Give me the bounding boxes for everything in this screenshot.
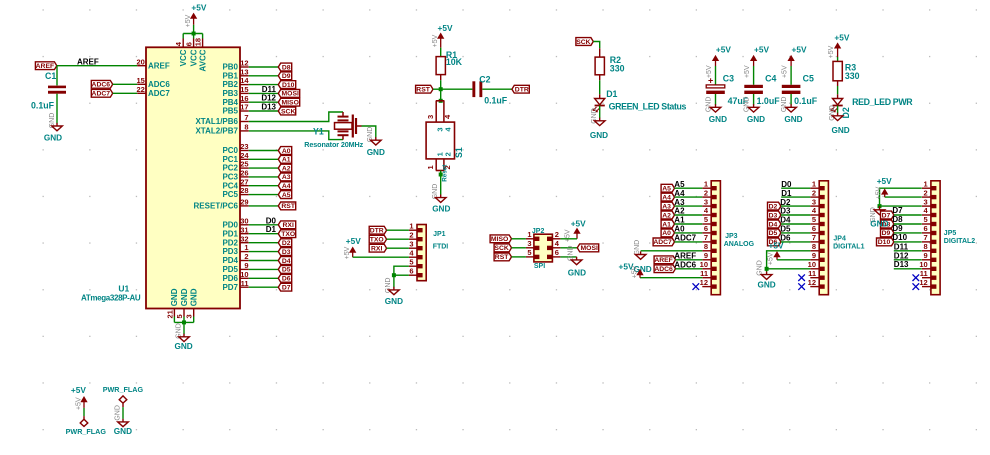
wire + global label A1 (PC1 pin24) xyxy=(249,155,292,163)
svg-text:D13: D13 xyxy=(894,260,909,269)
svg-text:RED_LED PWR: RED_LED PWR xyxy=(852,97,913,107)
svg-text:+5V: +5V xyxy=(346,236,361,246)
svg-text:C4: C4 xyxy=(765,74,776,84)
svg-text:10: 10 xyxy=(919,260,927,269)
wire JP4 pin9 to +5V xyxy=(777,259,810,261)
grey +5V pin text at JP3 pin11 xyxy=(631,265,638,278)
svg-text:GND: GND xyxy=(590,131,608,140)
svg-text:DIGITAL2: DIGITAL2 xyxy=(944,238,975,245)
no-connect JP3 pin12 xyxy=(693,283,700,290)
svg-text:GND: GND xyxy=(44,133,62,142)
svg-text:24: 24 xyxy=(240,151,249,160)
svg-text:D10: D10 xyxy=(878,239,891,246)
svg-text:DIGITAL1: DIGITAL1 xyxy=(833,244,864,251)
svg-text:3: 3 xyxy=(409,239,413,248)
svg-text:PC4: PC4 xyxy=(222,181,238,190)
local label AREF (black) xyxy=(77,58,99,67)
svg-text:15: 15 xyxy=(240,85,248,94)
svg-text:+5V: +5V xyxy=(781,65,788,78)
wire JP5 pin1 to GND rail xyxy=(880,188,922,206)
svg-text:+5V: +5V xyxy=(71,385,86,395)
svg-text:10: 10 xyxy=(808,260,816,269)
global label MISO at JP2 xyxy=(490,235,511,243)
wire AREF down to C1 xyxy=(56,66,58,86)
wire + global label MISO, local label D12 (PB4 pin16) xyxy=(249,94,300,107)
R2 reference xyxy=(610,55,621,65)
wire across VCC pins xyxy=(183,33,202,35)
svg-text:1: 1 xyxy=(924,179,928,188)
global label ADC7 xyxy=(91,89,112,97)
global label D4 at JP4 pin5 xyxy=(768,216,811,229)
svg-text:+5V: +5V xyxy=(75,397,82,410)
pin R2 top xyxy=(599,48,601,57)
svg-text:3: 3 xyxy=(527,239,531,248)
wire + global label TXO, local label D1 (PD1 pin31) xyxy=(249,225,296,238)
wire JP1 pin6 xyxy=(394,274,409,276)
svg-text:2: 2 xyxy=(244,252,248,261)
svg-text:9: 9 xyxy=(244,261,248,270)
svg-text:6: 6 xyxy=(812,224,816,233)
ground below S1 xyxy=(432,195,450,214)
grey GND pin text at S1 xyxy=(432,184,439,200)
capacitor C5 0.1uF with +5V and ground xyxy=(781,45,818,125)
pin R1 bottom xyxy=(440,75,442,81)
svg-text:GND: GND xyxy=(170,288,179,306)
svg-text:30: 30 xyxy=(240,216,248,225)
svg-text:1: 1 xyxy=(244,243,248,252)
svg-text:RST: RST xyxy=(281,203,295,210)
svg-text:10: 10 xyxy=(700,260,708,269)
+5V above left PWR_FLAG xyxy=(71,385,87,408)
local label D11 at JP5 pin8 xyxy=(894,242,922,251)
LED D1 xyxy=(593,99,605,112)
JP2 value SPI xyxy=(534,263,545,270)
svg-text:SCK: SCK xyxy=(576,39,590,46)
local label D0 at JP4 pin1 xyxy=(781,180,810,189)
wire +5V to R3 xyxy=(837,57,839,61)
wire to pin 18 xyxy=(202,34,204,39)
global label D10 at JP5 pin7 xyxy=(877,233,922,246)
GND text at JP5 xyxy=(870,219,888,228)
svg-text:18: 18 xyxy=(194,38,203,46)
svg-text:MOSI: MOSI xyxy=(581,245,598,252)
wire + global label A4 (PC4 pin27) xyxy=(249,182,292,190)
svg-text:A5: A5 xyxy=(662,186,671,193)
IC U1 ATmega328P-AU body xyxy=(146,47,240,308)
svg-text:+5V: +5V xyxy=(828,45,835,58)
global label SCK at JP2 xyxy=(494,244,511,252)
wire JP5 pin3 xyxy=(880,205,922,207)
svg-text:PC1: PC1 xyxy=(222,155,238,164)
svg-text:D9: D9 xyxy=(282,73,291,80)
svg-text:+5V: +5V xyxy=(185,14,192,27)
svg-text:8: 8 xyxy=(244,123,248,132)
junction RST node xyxy=(439,87,443,91)
svg-text:RXI: RXI xyxy=(371,246,382,253)
svg-text:JP4: JP4 xyxy=(833,235,846,242)
svg-text:D11: D11 xyxy=(262,85,277,94)
svg-text:21: 21 xyxy=(165,310,174,318)
PWR_FLAG symbol left xyxy=(80,416,88,426)
svg-text:+5V: +5V xyxy=(438,23,453,33)
svg-text:AREF: AREF xyxy=(36,63,55,70)
PWR_FLAG text left xyxy=(66,427,107,436)
local label D12 at JP5 pin9 xyxy=(894,251,922,260)
svg-text:AREF: AREF xyxy=(148,61,170,70)
R3 reference xyxy=(845,63,856,73)
grey GND pin text at PWR_FLAG xyxy=(114,405,121,421)
C1 value 0.1uF xyxy=(31,101,55,111)
resonator Y1 symbol xyxy=(335,112,362,140)
+5V at JP3 pin11 xyxy=(619,262,643,278)
grey GND pin text at JP3 pin8 xyxy=(634,240,641,256)
wire D1 to ground xyxy=(599,106,601,119)
svg-text:GND: GND xyxy=(784,115,802,124)
wire JP2 pin4 to MOSI xyxy=(560,247,577,249)
JP5 reference xyxy=(944,230,957,237)
svg-text:D7: D7 xyxy=(892,206,903,215)
svg-text:GND: GND xyxy=(190,288,199,306)
grey GND pin text at JP1 xyxy=(385,278,392,294)
svg-text:Y1: Y1 xyxy=(313,127,324,137)
global label A3 at JP3 pin3 xyxy=(661,198,702,211)
svg-text:D11: D11 xyxy=(894,242,909,251)
PWR_FLAG text right top xyxy=(103,385,144,394)
pin R2 bottom xyxy=(599,75,601,81)
svg-text:D8: D8 xyxy=(282,64,291,71)
svg-text:GND: GND xyxy=(757,260,764,276)
svg-text:A5: A5 xyxy=(282,192,291,199)
wire JP3 pin8 to ground xyxy=(641,250,703,252)
svg-text:SCK: SCK xyxy=(281,108,295,115)
svg-text:S1: S1 xyxy=(454,147,464,158)
svg-text:SCK: SCK xyxy=(494,245,508,252)
svg-text:+5V: +5V xyxy=(834,32,849,42)
svg-text:MOSI: MOSI xyxy=(282,91,299,98)
svg-text:GND: GND xyxy=(709,115,727,124)
svg-text:6: 6 xyxy=(409,266,413,275)
svg-text:AREF: AREF xyxy=(654,257,673,264)
svg-text:+5V: +5V xyxy=(716,45,731,55)
ground at JP5 (symbol) xyxy=(874,206,885,215)
svg-text:5: 5 xyxy=(704,215,708,224)
svg-text:9: 9 xyxy=(924,251,928,260)
wire SCK to R2 xyxy=(593,42,599,49)
ground at JP2 xyxy=(568,257,586,278)
+5V at JP4 pin9 xyxy=(769,240,784,259)
svg-text:10: 10 xyxy=(240,270,248,279)
IC U1 value ATmega328P-AU xyxy=(81,294,141,303)
pin R3 bottom xyxy=(837,81,839,86)
svg-text:22: 22 xyxy=(136,85,144,94)
svg-text:32: 32 xyxy=(240,234,248,243)
+5V above R3 xyxy=(834,32,849,57)
svg-text:2: 2 xyxy=(924,188,928,197)
ground below right PWR_FLAG xyxy=(114,419,132,436)
PWR_FLAG symbol right xyxy=(119,396,127,407)
JP3 reference xyxy=(725,233,738,240)
global label A4 at JP3 pin2 xyxy=(661,189,702,202)
wire JP3 pin11 to +5V xyxy=(640,277,702,279)
connector JP1 body with pins 1-6 xyxy=(409,221,426,280)
svg-text:D3: D3 xyxy=(769,212,778,219)
junction at VCC xyxy=(192,32,196,36)
grey +5V pin text xyxy=(185,14,192,27)
svg-text:PB2: PB2 xyxy=(222,80,238,89)
grey +5V pin text at JP1 xyxy=(344,246,351,259)
svg-text:PD6: PD6 xyxy=(222,274,238,283)
svg-text:JP3: JP3 xyxy=(725,233,738,240)
wire +5V to PWR_FLAG xyxy=(83,408,85,416)
svg-text:PD4: PD4 xyxy=(222,256,238,265)
wire MISO to JP2 pin1 xyxy=(512,238,526,240)
grey GND pin text at JP2 xyxy=(567,246,574,262)
junction at JP1 pin6 xyxy=(392,273,396,277)
svg-text:GND: GND xyxy=(831,126,849,135)
svg-text:D12: D12 xyxy=(894,251,909,260)
svg-text:10K: 10K xyxy=(446,57,463,67)
svg-text:7: 7 xyxy=(704,233,708,242)
grey GND pin text at JP4 xyxy=(757,260,764,276)
wire + global label RST (RESET/PC6 pin29) xyxy=(249,202,296,210)
push-button switch S1 xyxy=(426,101,464,171)
wire JP1 pin5 to junction xyxy=(394,266,409,275)
wire + global label D6 (PD6 pin10) xyxy=(249,274,292,282)
junction at switch top xyxy=(439,99,443,103)
svg-text:D10: D10 xyxy=(282,82,295,89)
svg-text:A2: A2 xyxy=(662,212,671,219)
svg-text:ADC7: ADC7 xyxy=(92,91,111,98)
wire +5V down to junction xyxy=(193,25,195,34)
svg-text:A4: A4 xyxy=(282,183,291,190)
svg-text:C1: C1 xyxy=(45,71,56,81)
svg-text:D7: D7 xyxy=(882,212,891,219)
grey +5V pin text at PWR_FLAG xyxy=(75,397,82,410)
R1 value 10K xyxy=(446,57,463,67)
svg-text:D10: D10 xyxy=(892,233,907,242)
svg-text:20: 20 xyxy=(136,57,144,66)
wire + global label A2 (PC2 pin25) xyxy=(249,164,292,172)
wire JP5 pin2 to +5V xyxy=(885,196,922,198)
svg-text:8: 8 xyxy=(924,242,928,251)
svg-text:2: 2 xyxy=(812,188,816,197)
svg-text:RESET/PC6: RESET/PC6 xyxy=(194,202,239,211)
JP1 value FTDI xyxy=(433,244,449,251)
connector JP5 body with pins 1-12 xyxy=(919,179,940,294)
svg-text:PWR_FLAG: PWR_FLAG xyxy=(103,385,144,394)
svg-text:JP2: JP2 xyxy=(532,228,545,235)
no-connect JP5 pin11 xyxy=(913,274,920,281)
IC U1 top pins 4/6/18 VCC VCC AVCC xyxy=(174,38,207,72)
wire JP4 pin8 to GND rail xyxy=(767,251,811,269)
wire down to ground xyxy=(183,322,185,334)
svg-text:8: 8 xyxy=(704,242,708,251)
svg-text:15: 15 xyxy=(136,76,144,85)
svg-text:330: 330 xyxy=(610,64,625,74)
svg-text:XTAL2/PB7: XTAL2/PB7 xyxy=(195,127,238,136)
global label A0 at JP3 pin6 xyxy=(661,225,702,238)
wire TXO to JP1 pin2 xyxy=(387,238,409,240)
svg-text:MISO: MISO xyxy=(282,100,299,107)
ground below D2 xyxy=(831,113,849,135)
svg-text:28: 28 xyxy=(240,186,248,195)
svg-text:12: 12 xyxy=(700,278,708,287)
svg-text:PB4: PB4 xyxy=(222,98,238,107)
wire + global label D9 (PB1 pin13) xyxy=(249,72,292,80)
svg-text:D4: D4 xyxy=(282,258,291,265)
svg-text:3: 3 xyxy=(185,314,194,318)
svg-text:D9: D9 xyxy=(882,230,891,237)
svg-text:PB1: PB1 xyxy=(222,71,238,80)
svg-text:GND: GND xyxy=(385,297,403,306)
local label D13 at JP5 pin10 xyxy=(894,260,922,269)
svg-text:2: 2 xyxy=(555,230,559,239)
wire C1 to GND xyxy=(56,94,58,124)
grey GND pin text at JP5 xyxy=(870,207,877,223)
svg-text:D4: D4 xyxy=(769,221,778,228)
svg-text:11: 11 xyxy=(241,279,249,288)
wire + global label A3 (PC3 pin26) xyxy=(249,173,292,181)
wire D2 to ground xyxy=(837,106,839,114)
wire XTAL2/PB7 to resonator xyxy=(249,131,343,140)
svg-text:DTR: DTR xyxy=(370,228,384,235)
svg-text:6: 6 xyxy=(924,224,928,233)
JP5 value DIGITAL2 xyxy=(944,238,975,245)
connector JP4 body with pins 1-12 xyxy=(808,179,829,294)
wire switch to ground xyxy=(440,171,442,195)
junction at JP4 pin10 xyxy=(765,267,769,271)
grey GND pin text at resonator xyxy=(367,127,374,143)
global label ADC6 xyxy=(91,80,112,88)
svg-text:PD3: PD3 xyxy=(222,247,238,256)
wire ADC6 to pin 15 xyxy=(113,83,138,85)
wire ADC7 to pin 22 xyxy=(113,92,138,94)
R2 value 330 xyxy=(610,64,625,74)
wire JP4 pin10 xyxy=(767,268,811,270)
svg-text:VCC: VCC xyxy=(189,49,198,66)
no-connect JP4 pin12 xyxy=(798,283,805,290)
wire resonator to GND xyxy=(362,126,376,138)
connector JP2 body 2x3 xyxy=(526,230,561,262)
wire + global label A0 (PC0 pin23) xyxy=(249,147,292,155)
svg-text:D2: D2 xyxy=(769,203,778,210)
svg-text:8: 8 xyxy=(812,242,816,251)
svg-text:PC2: PC2 xyxy=(222,164,238,173)
svg-text:1: 1 xyxy=(426,165,435,169)
ground below U1 xyxy=(174,334,192,351)
resistor R3 xyxy=(833,61,842,80)
wire RXI to JP1 pin3 xyxy=(387,247,409,249)
wire PWR_FLAG to GND xyxy=(122,407,124,419)
ground below C1 xyxy=(44,123,62,142)
svg-text:ADC7: ADC7 xyxy=(653,239,672,246)
LED D2 xyxy=(831,99,843,112)
svg-text:PB3: PB3 xyxy=(222,89,238,98)
wire + global label A5 (PC5 pin28) xyxy=(249,191,292,199)
svg-text:+5V: +5V xyxy=(565,229,572,242)
global label A1 at JP3 pin5 xyxy=(661,216,702,229)
global label A5 at JP3 pin1 xyxy=(661,180,702,193)
svg-text:GND: GND xyxy=(706,97,713,113)
svg-text:D7: D7 xyxy=(282,285,291,292)
JP3 value ANALOG xyxy=(724,241,755,248)
svg-text:5: 5 xyxy=(527,248,531,257)
svg-text:1: 1 xyxy=(527,230,531,239)
connector JP3 body with pins 1-12 xyxy=(700,179,721,294)
wire JP4 to ground xyxy=(766,269,768,272)
+5V above R1 xyxy=(438,23,453,48)
svg-text:12: 12 xyxy=(919,278,927,287)
svg-text:17: 17 xyxy=(240,103,248,112)
IC U1 bottom pins 21/5/3 GND GND GND xyxy=(165,288,198,318)
svg-text:PD5: PD5 xyxy=(222,265,238,274)
svg-text:Resonator 20MHz: Resonator 20MHz xyxy=(304,140,363,149)
svg-text:D5: D5 xyxy=(769,230,778,237)
JP4 value DIGITAL1 xyxy=(833,244,864,251)
wire to pin 4 xyxy=(182,34,184,39)
svg-text:ADC7: ADC7 xyxy=(148,89,170,98)
svg-text:12: 12 xyxy=(808,278,816,287)
svg-text:D8: D8 xyxy=(892,215,903,224)
svg-text:GND: GND xyxy=(757,281,775,290)
svg-text:D3: D3 xyxy=(282,249,291,256)
svg-text:A3: A3 xyxy=(282,174,291,181)
svg-text:2: 2 xyxy=(409,230,413,239)
svg-text:PD2: PD2 xyxy=(222,238,238,247)
wire JP1 to ground xyxy=(393,275,395,287)
svg-text:RST: RST xyxy=(495,254,509,261)
svg-text:D12: D12 xyxy=(261,94,276,103)
global label D9 at JP5 pin6 xyxy=(881,224,922,237)
svg-text:AVCC: AVCC xyxy=(198,49,207,71)
svg-text:GND: GND xyxy=(114,427,132,436)
svg-text:D1: D1 xyxy=(606,89,617,99)
wire AREF to pin 20 xyxy=(57,65,137,67)
global label D3 at JP4 pin4 xyxy=(768,207,811,220)
svg-text:AREF: AREF xyxy=(77,58,99,67)
wire R3 to D2 xyxy=(837,86,839,94)
grey +5V pin text at JP5 pin2 xyxy=(876,186,883,199)
wire + global label D10 (PB2 pin14) xyxy=(249,81,296,89)
svg-text:A4: A4 xyxy=(662,194,671,201)
global label AREF at JP3 pin9 xyxy=(654,252,702,265)
svg-text:11: 11 xyxy=(700,269,708,278)
wire + global label D4 (PD4 pin2) xyxy=(249,257,292,265)
svg-text:A1: A1 xyxy=(662,221,671,228)
ground at resonator xyxy=(367,137,385,157)
D2 value RED_LED PWR xyxy=(852,97,913,107)
svg-text:ADC6: ADC6 xyxy=(654,266,673,273)
wire node down to switch xyxy=(440,89,442,101)
ground below JP1 xyxy=(385,287,403,306)
svg-text:GND: GND xyxy=(180,288,189,306)
S1 value Reset (rotated) xyxy=(442,164,449,182)
svg-text:3: 3 xyxy=(704,197,708,206)
svg-text:GND: GND xyxy=(567,246,574,262)
svg-text:1: 1 xyxy=(704,179,708,188)
svg-text:PB5: PB5 xyxy=(222,107,238,116)
svg-text:A2: A2 xyxy=(282,165,291,172)
svg-text:PC0: PC0 xyxy=(222,146,238,155)
wire + global label D2 (PD2 pin32) xyxy=(249,239,292,247)
svg-text:GND: GND xyxy=(747,115,765,124)
wire +5V to JP1 pin4 xyxy=(353,256,409,258)
svg-text:9: 9 xyxy=(704,251,708,260)
wire + global label D7 (PD7 pin11) xyxy=(249,283,292,291)
svg-text:5: 5 xyxy=(812,215,816,224)
svg-text:GND: GND xyxy=(870,219,888,228)
svg-text:0.1uF: 0.1uF xyxy=(794,96,818,106)
